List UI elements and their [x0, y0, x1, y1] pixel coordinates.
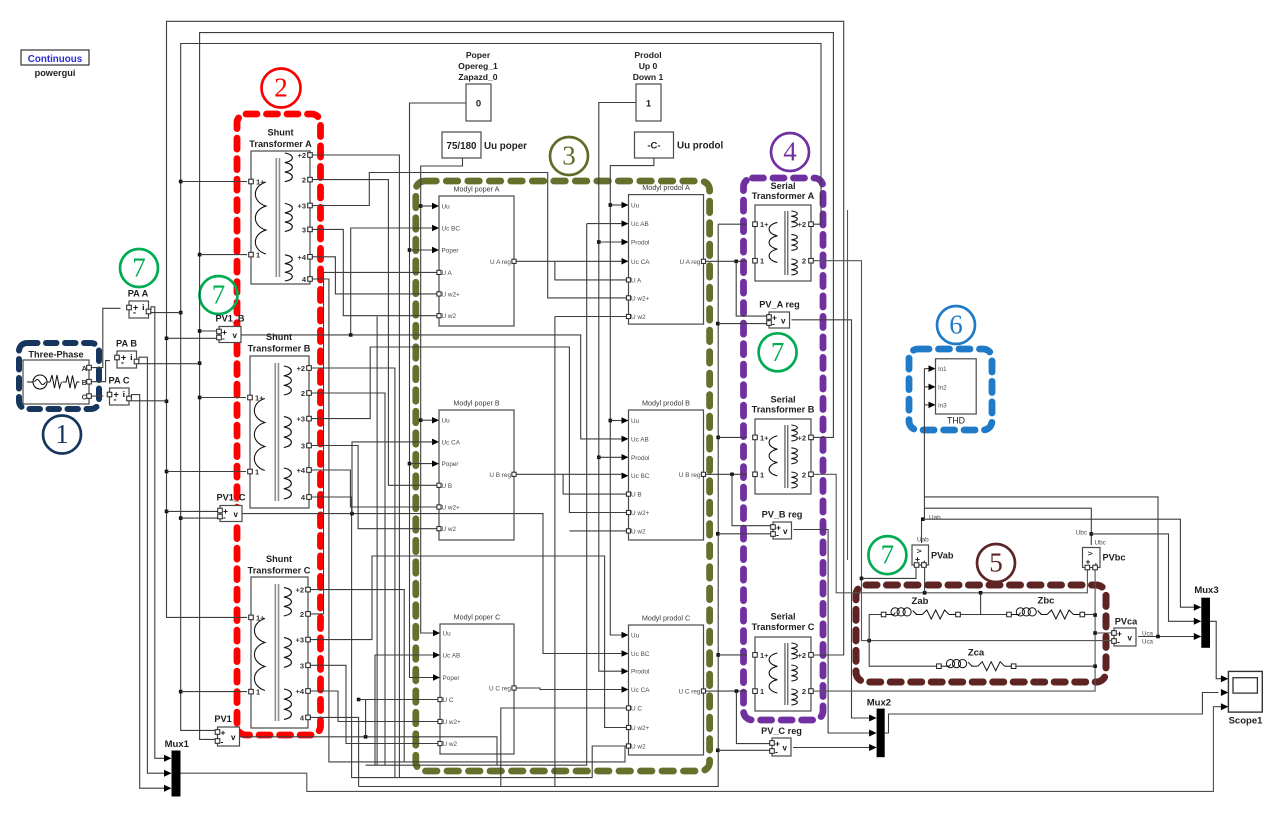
wire Shunt C 3 tap to poper C U w2	[311, 665, 438, 743]
junction node c Zbc	[1093, 613, 1097, 617]
svg-text:Transformer B: Transformer B	[752, 405, 815, 415]
svg-text:U w2+: U w2+	[631, 725, 650, 732]
svg-text:4: 4	[783, 137, 797, 167]
wire prodol A Uc AB vertical	[497, 224, 587, 766]
wire gutter misc a	[847, 210, 849, 560]
wire Shunt C +3 tap to prodol C U w2+	[311, 556, 627, 728]
svg-text:+3: +3	[295, 636, 304, 645]
junction Ubc	[1090, 532, 1094, 536]
voltage measurement PV1_B	[215, 314, 244, 344]
svg-text:PV1_B: PV1_B	[215, 314, 244, 324]
wire PV1 out	[240, 737, 498, 765]
wire PV_B reg out to Mux2 in2	[794, 530, 875, 734]
svg-text:+4: +4	[296, 466, 305, 475]
wire to PV_A reg -	[718, 323, 767, 325]
subsystem Modyl prodol A	[622, 183, 706, 324]
voltage measurement PV_C reg	[761, 726, 802, 757]
wire node c (Serial C 2 to PVbc -)	[814, 570, 1095, 691]
wire Uab branch to Mux3 in1	[923, 519, 1199, 607]
svg-text:Serial: Serial	[770, 612, 795, 622]
wire PA B out to Mux1 in2	[139, 357, 167, 773]
svg-text:v: v	[231, 733, 236, 742]
svg-text:-: -	[775, 747, 778, 757]
shunt transformer C	[248, 554, 311, 728]
svg-text:Uu poper: Uu poper	[484, 141, 527, 152]
svg-text:v: v	[1128, 634, 1133, 643]
svg-text:Transformer C: Transformer C	[752, 622, 815, 632]
subsystem Modyl poper B	[432, 399, 516, 541]
wire THD In1 stub	[924, 368, 929, 370]
svg-text:-: -	[133, 308, 136, 318]
svg-text:Zapazd_0: Zapazd_0	[458, 72, 497, 82]
marker circle 6	[937, 306, 975, 344]
wire Prodol constant bus	[599, 103, 636, 672]
junction U B reg prodol	[730, 473, 734, 477]
wire PV_C reg out to Mux2 in3	[793, 747, 874, 749]
svg-text:Uu: Uu	[442, 204, 451, 211]
svg-text:THD: THD	[947, 416, 965, 426]
svg-text:1: 1	[256, 688, 260, 697]
junction Poper B	[408, 462, 412, 466]
svg-text:Serial: Serial	[770, 181, 795, 191]
svg-text:U w2: U w2	[631, 314, 646, 321]
area 4 dashed box (Serial transformers)	[744, 178, 824, 720]
svg-text:U w2+: U w2+	[442, 291, 461, 298]
wire THD In2 stub	[924, 386, 929, 388]
wire to Serial A 1+	[718, 223, 747, 225]
svg-text:PV1: PV1	[214, 714, 231, 724]
junction PV_C reg -	[716, 749, 720, 753]
junction Serial B 1+	[716, 436, 720, 440]
svg-text:Ubc: Ubc	[1095, 540, 1107, 547]
wire U A reg prodol to Serial A 1	[706, 260, 747, 262]
svg-text:Zca: Zca	[968, 648, 985, 659]
svg-text:U w2: U w2	[442, 313, 457, 320]
svg-text:+2: +2	[295, 586, 304, 595]
junction R2-ShA1	[198, 253, 202, 257]
svg-text:Transformer A: Transformer A	[249, 139, 312, 149]
wire Shunt B 3 tap to poper B U w2	[312, 446, 437, 529]
junction Uu poper A	[419, 204, 423, 208]
junction R1-ShB1	[165, 470, 169, 474]
svg-text:v: v	[781, 317, 786, 326]
svg-text:Uc BC: Uc BC	[631, 473, 650, 480]
subsystem Modyl poper A	[432, 185, 516, 327]
svg-text:-C-: -C-	[647, 141, 660, 152]
wire Poper A branch	[410, 249, 434, 251]
wire PA C out to R1	[132, 400, 167, 402]
junction node c PVca+	[1093, 631, 1097, 635]
Mux1	[164, 739, 190, 797]
svg-text:Prodol: Prodol	[631, 240, 649, 247]
junction R3-ShC1	[179, 690, 183, 694]
wire U w2 A column	[376, 317, 378, 766]
wire Poper constant bus	[410, 103, 467, 678]
svg-text:In2: In2	[938, 384, 947, 391]
svg-text:7: 7	[771, 337, 785, 367]
svg-text:Modyl poper B: Modyl poper B	[453, 399, 500, 408]
THD block	[929, 359, 977, 426]
area 2 dashed box (Shunt transformers)	[237, 114, 321, 735]
junction Uca	[1156, 635, 1160, 639]
svg-text:1: 1	[646, 99, 652, 110]
svg-text:1: 1	[760, 257, 764, 266]
svg-text:v: v	[234, 510, 239, 519]
wire Shunt A +4 tap to poper A U w2+	[313, 257, 437, 294]
wire R1 to PV1_B -	[167, 337, 218, 339]
wire Uab vertical to PVab	[921, 519, 923, 543]
marker circle 7d	[868, 536, 906, 574]
svg-text:U C reg: U C reg	[489, 686, 511, 693]
wire Uu prodol bus	[610, 158, 654, 635]
svg-text:0: 0	[476, 99, 481, 110]
svg-text:Transformer C: Transformer C	[248, 566, 311, 576]
wire U C reg poper to Uc CA prodol C	[517, 688, 623, 690]
junction R2-PV1_B+	[198, 329, 202, 333]
svg-text:PVab: PVab	[931, 551, 954, 561]
junction R1-PV1_B-	[165, 337, 169, 341]
Three-Phase source block	[23, 350, 91, 405]
current measurement PA C	[107, 376, 131, 406]
svg-text:Modyl prodol C: Modyl prodol C	[642, 614, 690, 623]
marker circle 7b	[200, 276, 238, 314]
voltage measurement PVab	[912, 545, 954, 567]
wire loop R1 (Serial C +2 to top to PV1_C +)	[167, 21, 844, 655]
subsystem Modyl prodol B	[622, 399, 706, 541]
wire Shunt C +4 tap to poper C U w2+	[311, 691, 438, 722]
wire Shunt B +2 tap	[312, 368, 395, 778]
svg-text:PA B: PA B	[116, 339, 137, 349]
svg-text:Prodol: Prodol	[631, 455, 649, 462]
svg-text:PVbc: PVbc	[1103, 553, 1126, 563]
svg-text:Uc BC: Uc BC	[442, 226, 461, 233]
junction Uu prodol A	[609, 203, 613, 207]
subsystem Modyl prodol C	[622, 614, 706, 756]
svg-text:Uc BC: Uc BC	[631, 651, 650, 658]
wire poper C Uc AB feed	[375, 655, 433, 765]
wire U B reg prodol to Serial B 1	[706, 473, 747, 475]
wire Ubc branch to Mux3 in2	[1091, 534, 1199, 621]
svg-text:Serial: Serial	[770, 395, 795, 405]
svg-text:Uu: Uu	[631, 418, 640, 425]
wire branch to PV_C reg +	[736, 691, 769, 744]
svg-text:PV_A reg: PV_A reg	[759, 300, 800, 310]
wire A phase to PA A	[92, 308, 121, 367]
junction R1-PV1_C+	[165, 510, 169, 514]
svg-text:Continuous: Continuous	[28, 54, 83, 65]
svg-text:PVca: PVca	[1115, 617, 1138, 627]
wire PA A out to Mux1 in1	[151, 307, 167, 759]
wire Shunt B 2 tap	[312, 393, 386, 765]
wire Zab-Zbc mid leg	[980, 593, 982, 615]
impedance Zca	[937, 648, 1016, 671]
svg-text:-: -	[772, 319, 775, 329]
wire node b (Serial B 2 to PVbc +)	[814, 474, 1087, 593]
svg-text:U A: U A	[631, 277, 642, 284]
wire Mux3 out to Scope in1	[1210, 621, 1224, 678]
svg-text:In1: In1	[938, 366, 947, 373]
svg-text:Shunt: Shunt	[267, 128, 293, 138]
wire PV_A reg out to Mux2 in1	[792, 320, 875, 718]
junction R2-ShB1+	[198, 396, 202, 400]
svg-text:Opereg_1: Opereg_1	[458, 61, 498, 71]
subsystem Modyl poper C	[433, 613, 516, 755]
wire Poper B branch	[410, 463, 434, 465]
voltage measurement PV_B reg	[762, 510, 803, 540]
svg-text:U B: U B	[442, 483, 453, 490]
svg-text:U w2+: U w2+	[631, 295, 650, 302]
wire C phase to PA C	[92, 395, 104, 397]
wire to PV_B reg -	[718, 533, 771, 535]
svg-text:6: 6	[949, 310, 963, 340]
svg-text:powergui: powergui	[35, 68, 76, 78]
svg-text:v: v	[1085, 552, 1094, 556]
junction Poper A	[408, 248, 412, 252]
junction Uu prodol B	[609, 419, 613, 423]
area 5 dashed box (impedances)	[856, 585, 1106, 682]
svg-text:-: -	[1117, 637, 1120, 647]
wire prodol B U w2 feed	[569, 530, 626, 532]
svg-text:+3: +3	[296, 415, 305, 424]
svg-text:PA C: PA C	[109, 376, 130, 386]
voltage measurement PV_A reg	[759, 300, 800, 329]
svg-text:3: 3	[562, 141, 576, 171]
wire Shunt C 4 tap	[311, 717, 359, 786]
svg-text:Zbc: Zbc	[1038, 596, 1055, 607]
svg-text:PV_B reg: PV_B reg	[762, 510, 803, 520]
junction node c Zca	[1093, 664, 1097, 668]
svg-text:Uc CA: Uc CA	[631, 259, 650, 266]
wire to Serial C 1+	[718, 654, 747, 656]
svg-text:Up 0: Up 0	[639, 61, 658, 71]
voltage measurement PV1_C	[216, 493, 245, 523]
svg-text:Transformer A: Transformer A	[752, 191, 815, 201]
svg-text:Three-Phase: Three-Phase	[28, 350, 83, 360]
svg-text:U w2: U w2	[631, 528, 646, 535]
svg-text:Prodol: Prodol	[634, 50, 661, 60]
wire Prodol B branch	[599, 456, 623, 458]
svg-text:v: v	[233, 331, 238, 340]
svg-text:v: v	[783, 527, 788, 536]
wire U B reg poper to Uc BC prodol B	[517, 473, 623, 475]
svg-text:Uc AB: Uc AB	[631, 436, 649, 443]
wire Ubc line to THD	[924, 508, 1091, 545]
powergui block	[21, 50, 89, 78]
wire PA A out to R3	[151, 312, 181, 314]
shunt transformer A	[249, 128, 313, 285]
svg-text:75/180: 75/180	[447, 141, 478, 152]
svg-text:7: 7	[212, 280, 226, 310]
wire PV1_C branch to Uc CA poper B	[352, 442, 433, 514]
marker circle 7a	[120, 249, 158, 287]
area 1 dashed box (Three-Phase)	[19, 343, 99, 409]
wire branch to PV_B reg +	[732, 474, 771, 525]
svg-text:U w2+: U w2+	[443, 719, 462, 726]
svg-text:7: 7	[132, 253, 146, 283]
svg-text:Uu: Uu	[442, 418, 451, 425]
wire branch to U A prodol	[555, 261, 626, 280]
junction R2-PAB	[198, 361, 202, 365]
svg-text:2: 2	[802, 257, 806, 266]
junction R1-PAC	[165, 400, 169, 404]
svg-text:2: 2	[301, 389, 305, 398]
wire Uca line to THD	[924, 497, 1158, 637]
junction PV_B reg -	[716, 532, 720, 536]
svg-text:U A: U A	[442, 270, 453, 277]
junction PV1_C out	[350, 512, 354, 516]
wire R3 to Shunt C 1	[181, 691, 247, 693]
svg-text:+3: +3	[297, 202, 306, 211]
serial transformer A	[752, 181, 815, 281]
wire Shunt C 2 tap to U A	[311, 272, 437, 614]
svg-text:Poper: Poper	[442, 248, 460, 255]
svg-text:+2: +2	[297, 151, 306, 160]
wire Shunt A 4 tap	[313, 279, 627, 762]
junction R3-ShA1+	[179, 180, 183, 184]
wire R1 to Shunt B 1	[167, 471, 247, 473]
svg-text:-: -	[221, 737, 224, 747]
svg-text:1+: 1+	[255, 394, 264, 403]
junction node a Zab/Zca	[867, 639, 871, 643]
wire PV1_C out to Uc BC prodol C	[242, 514, 622, 654]
svg-text:U A reg: U A reg	[680, 259, 701, 266]
constant block 0 (Poper)	[458, 50, 498, 121]
svg-text:Uc CA: Uc CA	[442, 439, 461, 446]
wire R1 to PV1_C +	[167, 510, 219, 512]
wire Shunt C +2 tap	[311, 590, 405, 762]
marker circle 7c	[759, 333, 797, 371]
wire Uu poper bus	[421, 158, 463, 633]
svg-text:PV1_C: PV1_C	[216, 493, 245, 503]
wire R2 to Shunt B 1+	[200, 397, 246, 399]
wire loop R3 (Serial A +2 to top to PV1 +)	[181, 44, 821, 731]
svg-text:+4: +4	[295, 687, 304, 696]
svg-text:Shunt: Shunt	[266, 332, 292, 342]
svg-text:Uu prodol: Uu prodol	[677, 141, 724, 152]
area 6 dashed box (THD)	[909, 349, 992, 430]
voltage measurement PVbc	[1083, 548, 1126, 570]
junction U C feed	[357, 698, 361, 702]
current measurement PA A	[127, 289, 151, 319]
svg-text:Poper: Poper	[442, 461, 460, 468]
wire node a (Serial A 2 to PVca -)	[814, 261, 1111, 641]
junction Uu poper B	[419, 418, 423, 422]
wire Uu prodol B branch	[610, 420, 622, 422]
svg-text:1+: 1+	[760, 651, 769, 660]
svg-text:Uc AB: Uc AB	[443, 653, 461, 660]
wire branch to U B prodol	[563, 474, 626, 494]
svg-text:-: -	[114, 395, 117, 405]
svg-text:v: v	[783, 744, 788, 753]
svg-text:7: 7	[881, 540, 895, 570]
wire prodol A U w2 feed	[555, 316, 626, 318]
wire Shunt A +2 tap	[313, 155, 400, 778]
marker circle 3	[550, 137, 588, 175]
wire THD feed vertical	[923, 369, 925, 520]
svg-text:PV_C reg: PV_C reg	[761, 726, 802, 736]
svg-text:U w2: U w2	[443, 741, 458, 748]
svg-text:3: 3	[301, 442, 305, 451]
serial transformer B	[752, 395, 815, 495]
wire B phase to PA B	[92, 361, 111, 382]
junction Prodol A	[597, 240, 601, 244]
wire Zab/Zca left legs	[869, 615, 936, 667]
svg-text:Uc AB: Uc AB	[631, 221, 649, 228]
wire Shunt B +4 tap to poper B U w2+	[312, 470, 437, 507]
svg-text:PA A: PA A	[128, 289, 149, 299]
svg-text:+2: +2	[797, 220, 806, 229]
svg-text:U B reg: U B reg	[679, 472, 701, 479]
svg-text:v: v	[914, 549, 923, 553]
wire prodol C U C vertical	[500, 709, 502, 787]
svg-text:Ubc: Ubc	[1076, 530, 1088, 537]
wire PVab + to node a	[862, 568, 917, 578]
junction node a PVab+	[860, 577, 864, 581]
marker circle 4	[771, 133, 809, 171]
junction R3-PV1_C-	[179, 516, 183, 520]
wire Shunt A 3 tap to poper A U w2	[313, 229, 437, 315]
wire Uu poper A branch	[421, 205, 433, 207]
svg-text:1+: 1+	[256, 178, 265, 187]
svg-text:Scope1: Scope1	[1229, 716, 1264, 727]
svg-text:U A reg: U A reg	[490, 259, 511, 266]
svg-text:Prodol: Prodol	[631, 669, 649, 676]
marker circle 1	[43, 416, 81, 454]
svg-text:U C: U C	[443, 697, 454, 704]
voltage measurement PV1	[214, 714, 239, 747]
wire PVca out to Mux3 in3	[1138, 636, 1199, 638]
wire U C reg prodol to Serial C 1	[706, 690, 747, 692]
junction Prodol B	[597, 456, 601, 460]
junction Serial C 1+	[716, 653, 720, 657]
svg-text:-: -	[222, 333, 225, 343]
wire R2 to PV1_B +	[200, 330, 217, 332]
wire Shunt B 4 tap	[312, 497, 627, 778]
svg-text:+4: +4	[297, 253, 306, 262]
wire prodol A Uc AB feed	[587, 223, 622, 225]
svg-text:1+: 1+	[256, 613, 265, 622]
junction Uab	[921, 517, 925, 521]
svg-text:U B reg: U B reg	[489, 472, 511, 479]
svg-text:Poper: Poper	[466, 50, 491, 60]
svg-text:1: 1	[55, 419, 69, 449]
svg-text:Transformer B: Transformer B	[248, 344, 311, 354]
wire PA B out to R2	[139, 363, 200, 365]
svg-text:Zab: Zab	[912, 596, 929, 607]
marker circle 2	[262, 69, 301, 108]
wire loop R2 (Serial B +2 to top to PV1 -)	[200, 33, 834, 740]
wire Shunt B +3 tap to prodol B U w2+	[312, 347, 627, 513]
voltage measurement PVca	[1112, 617, 1138, 647]
impedance Zab	[881, 596, 960, 619]
svg-text:Uab: Uab	[917, 537, 929, 544]
wire Shunt A +3 tap to prodol A U w2+	[313, 173, 627, 298]
svg-text:1+: 1+	[760, 433, 769, 442]
svg-text:U w2: U w2	[631, 744, 646, 751]
svg-text:Uu: Uu	[631, 633, 640, 640]
Mux2	[867, 698, 891, 758]
wire Mux2 out to Scope in2	[885, 693, 1219, 734]
svg-text:1: 1	[760, 687, 764, 696]
wire to PVca +	[1095, 632, 1111, 634]
svg-text:-: -	[121, 358, 124, 368]
svg-text:3: 3	[302, 225, 306, 234]
junction PV1 out	[364, 735, 368, 739]
svg-text:U C: U C	[631, 706, 642, 713]
svg-text:Poper: Poper	[443, 675, 461, 682]
svg-text:In3: In3	[938, 402, 947, 409]
wire Shunt A 2 tap to U B	[313, 180, 437, 486]
